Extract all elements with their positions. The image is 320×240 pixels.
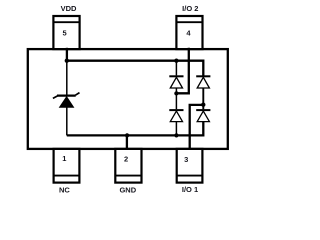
svg-text:I/O 2: I/O 2 xyxy=(182,4,198,13)
svg-text:VDD: VDD xyxy=(61,4,77,13)
svg-text:1: 1 xyxy=(62,154,66,163)
svg-text:NC: NC xyxy=(59,185,70,194)
svg-text:GND: GND xyxy=(119,186,136,195)
svg-text:I/O 1: I/O 1 xyxy=(182,185,198,194)
svg-text:5: 5 xyxy=(63,29,67,38)
svg-text:3: 3 xyxy=(184,155,188,164)
svg-text:2: 2 xyxy=(124,154,128,163)
